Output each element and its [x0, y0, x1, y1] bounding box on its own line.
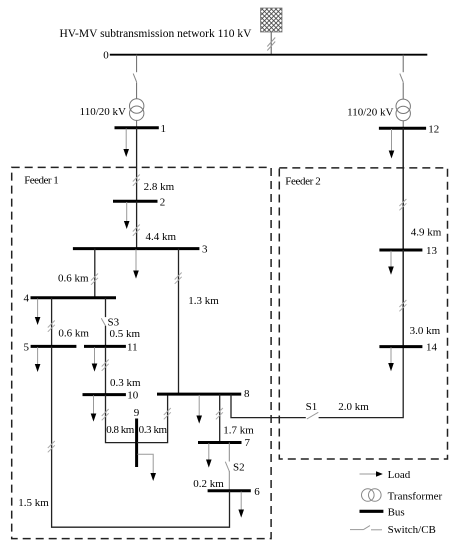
wire: left CB to transformer T1: [136, 82, 138, 127]
line marker slashes 0.6 km (3-4): [91, 274, 98, 285]
switch/CB left transformer: [133, 74, 136, 82]
wire: line 0.6 km bus 4 to bus 5: [51, 298, 53, 347]
svg-text:Bus: Bus: [388, 506, 405, 518]
load at bus 14: [388, 347, 394, 371]
bus 2: [113, 200, 158, 203]
load at bus 10: [91, 395, 97, 421]
svg-text:Feeder 1: Feeder 1: [24, 174, 59, 186]
switch S3: [101, 318, 105, 326]
wire: line 0.5 km bus 4 to switch S3: [105, 298, 107, 317]
svg-text:0.6 km: 0.6 km: [58, 273, 89, 285]
svg-text:1.7 km: 1.7 km: [223, 425, 254, 437]
line marker slashes 1.7 km: [216, 408, 223, 419]
bus 13: [379, 249, 422, 252]
load at bus 3: [133, 249, 139, 278]
switch S1: [307, 412, 319, 419]
line marker slashes 0.8 km: [102, 409, 109, 420]
wire: line 3.0 km bus 13 to bus 14: [402, 250, 404, 347]
load at bus 11: [92, 347, 98, 371]
transformer T1 110/20 kV: [130, 99, 144, 121]
wire: line 0.6 km bus 3 to bus 4: [94, 249, 96, 298]
svg-text:Feeder 2: Feeder 2: [285, 176, 321, 188]
svg-text:0.3 km: 0.3 km: [139, 424, 168, 436]
line marker slashes 1.5 km: [48, 441, 55, 452]
wire: line 0.3 km bus 8 to bus 9: [137, 394, 168, 443]
svg-text:5: 5: [24, 341, 30, 353]
bus 7: [198, 441, 242, 444]
svg-text:12: 12: [428, 123, 439, 135]
bus 0: [110, 54, 428, 56]
wire: switch S2 to bus 6: [228, 471, 230, 491]
line marker slashes 4.9 km: [399, 199, 406, 210]
legend: switch/CB symbol: [350, 526, 382, 530]
svg-text:110/20 kV: 110/20 kV: [347, 107, 393, 119]
bus 8: [157, 393, 241, 396]
line marker slashes 3.0 km: [399, 300, 406, 311]
svg-text:1.5 km: 1.5 km: [18, 497, 49, 509]
wire: line 0.3 km bus 11 to bus 10: [105, 346, 107, 394]
svg-text:3: 3: [202, 244, 208, 256]
bus 10: [83, 393, 126, 396]
svg-text:7: 7: [245, 437, 251, 449]
svg-text:0.8 km: 0.8 km: [106, 424, 134, 436]
legend: bus symbol: [360, 510, 384, 513]
line marker slashes 0.3 km (11-10): [102, 360, 109, 371]
svg-text:1.3 km: 1.3 km: [188, 295, 219, 307]
line marker slashes 1.3 km: [175, 273, 182, 284]
wire: tie line 2.0 km bus 8 to switch S1: [231, 394, 306, 418]
wire: line 0.8 km bus 10 to bus 9: [106, 395, 138, 443]
svg-text:8: 8: [244, 388, 250, 400]
load at bus 6: [238, 492, 244, 518]
bus 11: [84, 345, 126, 348]
switch/CB right transformer: [400, 74, 403, 82]
svg-text:Load: Load: [388, 469, 411, 481]
line marker slashes 2.8 km: [133, 175, 140, 186]
transformer T2 110/20 kV: [396, 99, 410, 121]
wire: bus 0 down to left CB: [136, 55, 138, 72]
load at bus 1: [123, 129, 129, 158]
svg-text:14: 14: [426, 342, 438, 354]
svg-text:0.3 km: 0.3 km: [110, 377, 141, 389]
load at bus 7: [206, 443, 212, 467]
load at bus 12: [389, 129, 395, 159]
load at bus 8: [196, 395, 202, 424]
svg-text:Switch/CB: Switch/CB: [388, 524, 436, 536]
wire: switch S3 to bus 11: [105, 326, 107, 347]
bus 4: [31, 296, 117, 299]
load at bus 5: [35, 347, 41, 372]
svg-text:4.9 km: 4.9 km: [411, 226, 442, 238]
line marker slashes 0.3 km (8-9): [164, 408, 171, 419]
svg-text:6: 6: [254, 486, 260, 498]
bus 12: [379, 127, 426, 130]
wire: line 2.8 km bus 1 to bus 2: [136, 128, 138, 202]
wire: line 4.4 km bus 2 to bus 3: [136, 201, 138, 248]
svg-text:2.8 km: 2.8 km: [144, 181, 175, 193]
svg-text:4.4 km: 4.4 km: [146, 231, 177, 243]
load at bus 4: [35, 299, 41, 325]
legend: load symbol: [360, 471, 383, 476]
wire: switch S1 to bus 14 (2.0 km): [319, 347, 404, 418]
bus 1: [115, 126, 159, 129]
svg-text:11: 11: [127, 342, 138, 354]
legend: transformer symbol: [362, 489, 382, 502]
svg-text:2: 2: [160, 196, 166, 208]
wire: line 1.3 km bus 3 to bus 8: [178, 249, 180, 395]
line marker slashes 4.4 km: [133, 225, 140, 236]
line marker slashes 0.6 km (4-5): [48, 321, 55, 332]
wire: line 1.5 km bus 5 to bus 6: [52, 346, 230, 527]
wire: line 0.2 km bus 7 to switch S2: [228, 443, 230, 462]
bus 3: [73, 247, 199, 250]
external grid equivalent (hatched box): [261, 8, 283, 32]
wire: line 4.9 km bus 12 to bus 13: [402, 128, 404, 250]
Feeder 2 boundary (dashed box): [279, 168, 447, 459]
svg-text:9: 9: [134, 407, 140, 419]
svg-text:S1: S1: [306, 401, 318, 413]
svg-text:10: 10: [127, 390, 139, 402]
load at bus 9: [138, 454, 157, 481]
wire: grid to bus 0: [270, 32, 272, 55]
wire: line 1.7 km bus 8 to bus 7: [219, 394, 221, 442]
wire: right CB to transformer T2: [402, 82, 404, 128]
svg-text:0: 0: [103, 50, 109, 62]
svg-text:110/20 kV: 110/20 kV: [80, 106, 126, 118]
svg-text:S3: S3: [108, 317, 120, 329]
bus 9 (vertical): [135, 419, 138, 468]
bus 5: [31, 345, 77, 348]
switch S2: [225, 462, 229, 472]
svg-text:0.6 km: 0.6 km: [58, 328, 89, 340]
svg-text:0.2 km: 0.2 km: [193, 478, 224, 490]
load at bus 2: [124, 202, 130, 229]
svg-text:4: 4: [24, 293, 30, 305]
bus 6: [208, 489, 251, 492]
svg-text:2.0 km: 2.0 km: [338, 401, 369, 413]
svg-text:HV-MV subtransmission network: HV-MV subtransmission network 110 kV: [60, 28, 253, 40]
svg-text:Transformer: Transformer: [388, 491, 443, 503]
line marker slashes on grid feed: [267, 38, 275, 51]
bus 14: [379, 345, 422, 348]
wire: bus 0 down to right CB: [402, 55, 404, 72]
svg-text:13: 13: [426, 245, 438, 257]
Feeder 1 boundary (dashed box): [12, 167, 271, 538]
svg-text:1: 1: [161, 123, 167, 135]
svg-text:3.0 km: 3.0 km: [410, 325, 441, 337]
load at bus 13: [388, 251, 394, 275]
svg-text:0.5 km: 0.5 km: [110, 328, 141, 340]
svg-text:S2: S2: [233, 462, 245, 474]
